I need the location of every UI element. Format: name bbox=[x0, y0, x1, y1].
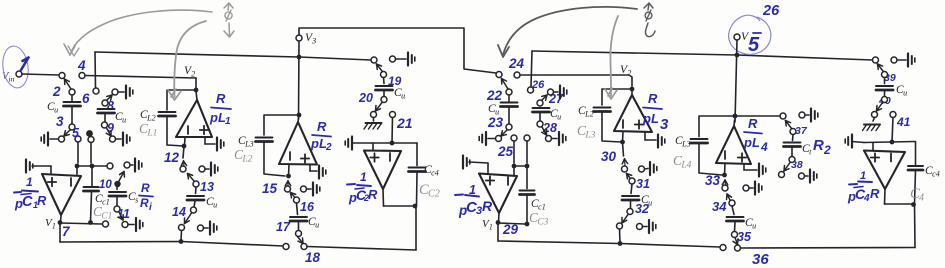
svg-text:25: 25 bbox=[497, 144, 514, 159]
op-amp U8 (-1/pC4R) bbox=[864, 151, 905, 190]
ink blob junction bbox=[86, 130, 93, 137]
wire contact 41 down bbox=[892, 118, 893, 143]
svg-text:14: 14 bbox=[172, 205, 186, 219]
svg-text:26: 26 bbox=[531, 79, 545, 91]
label CL3 handwritten bbox=[577, 123, 596, 141]
switch contact 40a (bottom of Cu10) bbox=[882, 97, 888, 103]
switch contact 18a bbox=[283, 244, 289, 250]
wire U1 inverting rail bbox=[75, 164, 110, 169]
wire V5 node to Ct branch bbox=[737, 115, 780, 117]
svg-text:16: 16 bbox=[300, 200, 315, 214]
wire bottom rail (18 to U4 output) bbox=[307, 247, 416, 251]
switch blade 9 bbox=[106, 128, 111, 136]
switch blade 35 bbox=[733, 238, 738, 245]
svg-text:c4: c4 bbox=[431, 169, 439, 178]
wire Cu7 bottom lead bbox=[539, 113, 541, 121]
label 22 bbox=[486, 88, 503, 103]
ground at U3 output side bbox=[310, 165, 326, 179]
switch blade 24 bbox=[502, 79, 509, 90]
gray arrow 1 (left, clock annotation) bbox=[64, 10, 212, 56]
wire Cu6 top lead bbox=[508, 95, 510, 102]
gray clock doodle left (up arrow, phi, down arrow) bbox=[224, 3, 234, 37]
label 9 bbox=[107, 121, 114, 135]
label -1/pC1R (blue) bbox=[14, 175, 47, 211]
svg-text:3: 3 bbox=[311, 37, 316, 46]
switch contact 14c (grounded) bbox=[198, 225, 204, 231]
switch contact 32c (grounded) bbox=[637, 224, 643, 230]
wire contact 5 down bbox=[77, 142, 79, 163]
label R/pL2 (blue) bbox=[310, 119, 332, 153]
op-amp U7 (R/pL4) bbox=[716, 126, 751, 164]
switch contact 20b (to earth) bbox=[371, 112, 377, 118]
svg-text:1: 1 bbox=[360, 170, 367, 184]
svg-text:26: 26 bbox=[762, 3, 780, 19]
label CL2 handwritten bbox=[234, 147, 253, 165]
wire Cs top lead bbox=[116, 187, 118, 190]
label 23 bbox=[487, 115, 504, 130]
svg-text:u: u bbox=[752, 222, 756, 231]
switch contact 5b bbox=[88, 137, 94, 143]
switch contact 33b (grounded) bbox=[743, 185, 749, 191]
svg-text:3: 3 bbox=[56, 114, 64, 129]
svg-text:t: t bbox=[809, 148, 812, 157]
svg-text:4: 4 bbox=[863, 193, 870, 204]
switch blade 8 bbox=[107, 95, 112, 100]
ground at U5 + input bbox=[463, 156, 488, 174]
svg-text:i: i bbox=[149, 202, 152, 213]
annotation blue circle around V5 bbox=[729, 15, 771, 54]
svg-text:18: 18 bbox=[305, 250, 321, 265]
svg-text:pL: pL bbox=[310, 136, 327, 151]
capacitor Cu10 bbox=[876, 78, 907, 98]
node V5 (terminal) bbox=[734, 31, 750, 43]
capacitor CL2 (U2 feedback) bbox=[159, 90, 197, 146]
switch contact 13 (top of Cu3) bbox=[193, 181, 199, 187]
label 26 small bbox=[531, 79, 545, 91]
label 39 bbox=[884, 72, 896, 84]
switch blade 38 bbox=[784, 163, 790, 172]
wire contact 21 down bbox=[391, 118, 394, 144]
label CL4 handwritten bbox=[673, 153, 692, 171]
node 4 contact on rail2 bbox=[79, 73, 85, 79]
switch contact 23a (bottom of Cu6) bbox=[506, 124, 512, 130]
switch contact 15b (grounded) bbox=[301, 186, 307, 192]
label -1/pC4R (blue) bbox=[847, 170, 880, 204]
gray arrow 2 (left, to V2) bbox=[168, 21, 206, 100]
switch contact 39a (rail1' end) bbox=[873, 57, 879, 63]
switch contact 28b bbox=[546, 136, 552, 142]
switch contact 40b (to earth) bbox=[872, 112, 878, 118]
svg-text:L3: L3 bbox=[584, 131, 595, 141]
switch contact 36b bbox=[735, 245, 741, 251]
label 16 bbox=[300, 200, 315, 214]
svg-text:1: 1 bbox=[26, 175, 33, 189]
switch contact 24a (from V3 wire) bbox=[496, 72, 502, 78]
switch blade 40 bbox=[877, 103, 883, 112]
op-amp U6 (R/pL3) bbox=[614, 95, 652, 132]
svg-text:pL: pL bbox=[642, 111, 659, 126]
capacitor Ct bbox=[784, 135, 813, 157]
label 35 bbox=[737, 230, 752, 244]
wire U4 inverting rail bbox=[371, 141, 417, 146]
capacitor Cc3 (U5 feedback) bbox=[520, 166, 546, 226]
annotation blue circled 1 at input bbox=[0, 44, 31, 89]
wire U1 inverting input drop bbox=[76, 166, 78, 175]
switch contact 10b (top of Cs) bbox=[114, 181, 120, 187]
earth ground at switch 20 bbox=[364, 118, 382, 130]
svg-text:5: 5 bbox=[72, 126, 80, 140]
ground at switch 10 bbox=[130, 159, 142, 172]
label R/pL4 (blue) bbox=[743, 116, 768, 154]
wire rail1' (top horizontal) bbox=[532, 51, 873, 60]
switch contact 11b bbox=[122, 222, 128, 228]
ground at switch 27 bbox=[554, 86, 567, 99]
capacitor Cu8 bbox=[622, 184, 652, 209]
switch contact 10c (grounded) bbox=[124, 162, 130, 168]
capacitor Cu3 bbox=[187, 187, 217, 210]
wire U4 + input drop bbox=[372, 143, 374, 150]
label Cc4 printed bbox=[925, 165, 940, 179]
switch contact 35a (bottom of Cu9) bbox=[732, 232, 738, 238]
svg-text:4: 4 bbox=[760, 140, 768, 154]
switch blade 17 bbox=[298, 237, 304, 244]
label 11 bbox=[117, 207, 130, 221]
svg-text:17: 17 bbox=[276, 220, 291, 234]
label 20 bbox=[358, 91, 373, 105]
switch blade 19 bbox=[377, 64, 383, 71]
switch blade 14 bbox=[185, 213, 192, 224]
dark arrow 1 (right, clock annotation) bbox=[498, 7, 637, 57]
label 14 bbox=[172, 205, 186, 219]
svg-text:1: 1 bbox=[489, 223, 493, 232]
switch contact on V1 line bbox=[103, 221, 109, 227]
switch blade 2 bbox=[65, 79, 72, 89]
label 12 bbox=[164, 150, 180, 165]
label 8 bbox=[107, 99, 114, 113]
wire rail1 (top horizontal) bbox=[95, 52, 371, 60]
node V2' bbox=[620, 64, 634, 91]
label -1/pC3R (blue) bbox=[455, 183, 493, 218]
switch contact 30a bbox=[622, 166, 628, 172]
svg-text:u: u bbox=[401, 92, 405, 101]
svg-text:pL: pL bbox=[209, 110, 226, 125]
op-amp U1 (-1/pC1R) bbox=[42, 174, 81, 215]
svg-text:23: 23 bbox=[487, 115, 504, 130]
capacitor CL4 (U7 feedback) bbox=[691, 116, 736, 175]
svg-text:24: 24 bbox=[508, 56, 525, 71]
switch contact 5 (to U1 inverting rail) bbox=[72, 126, 81, 142]
svg-text:u: u bbox=[315, 221, 319, 230]
svg-text:4: 4 bbox=[919, 193, 924, 204]
label -1/pC2R (blue) bbox=[347, 170, 378, 205]
label 27 bbox=[548, 92, 564, 106]
svg-text:2: 2 bbox=[191, 70, 195, 79]
wire U6 inverting input lead bbox=[620, 132, 625, 144]
switch contact 30b (grounded) bbox=[639, 166, 645, 172]
label 28 bbox=[542, 121, 557, 135]
wire contact 5b down bbox=[90, 143, 92, 164]
wire U8 + input drop bbox=[872, 143, 874, 151]
op-amp U3 (R/pL2) bbox=[279, 122, 317, 165]
label 24 bbox=[508, 56, 525, 71]
wire V1 output line bbox=[60, 223, 102, 224]
switch contact 8a (top of Cu2) bbox=[102, 100, 108, 106]
label 19 bbox=[388, 74, 402, 88]
label 30 bbox=[601, 149, 617, 164]
wire input to switch 2 bbox=[22, 74, 59, 75]
switch blade 34 bbox=[727, 194, 732, 200]
switch contact 9b bbox=[110, 136, 116, 142]
svg-text:pL: pL bbox=[743, 135, 760, 150]
switch contact 32a (bottom of Cu8) bbox=[627, 209, 633, 215]
capacitor Cu1 bbox=[47, 101, 81, 115]
switch blade 30 bbox=[622, 159, 627, 167]
label 4 bbox=[77, 58, 86, 73]
svg-text:R: R bbox=[216, 91, 226, 106]
switch contact 21 (to U4 input) bbox=[390, 112, 396, 118]
wire bottom rail (36 to U8 output) bbox=[741, 247, 916, 250]
capacitor Cu2 bbox=[98, 109, 127, 125]
label 26 big blue bbox=[762, 3, 780, 19]
svg-text:c1: c1 bbox=[102, 198, 110, 207]
node V3 (terminal) bbox=[296, 32, 316, 46]
wire chain30 stub bbox=[623, 142, 624, 156]
capacitor Cc4 (U8 feedback) bbox=[908, 142, 923, 204]
wire V5 vertical bbox=[733, 40, 740, 122]
svg-text:L2: L2 bbox=[241, 155, 252, 165]
label C4 handwritten bbox=[910, 186, 924, 204]
ground at U4 + input bbox=[345, 137, 371, 150]
label 2 bbox=[52, 84, 61, 99]
ground at U1 + input bbox=[26, 160, 51, 174]
wire Cu2 bottom lead bbox=[104, 114, 106, 122]
wire rail1 drop to contact 6 bbox=[94, 52, 97, 88]
wire V2 drop from rail2 bbox=[195, 78, 197, 90]
label CL2' bbox=[578, 105, 594, 119]
svg-text:41: 41 bbox=[896, 115, 911, 129]
switch contact 3a (bottom of Cu1) bbox=[69, 124, 75, 130]
svg-text:R: R bbox=[140, 196, 149, 210]
ground at switch 19 bbox=[396, 53, 415, 66]
switch contact 10a (rail end) bbox=[107, 163, 113, 169]
switch blade 16 bbox=[291, 193, 296, 198]
svg-text:C1: C1 bbox=[101, 212, 112, 222]
svg-text:1: 1 bbox=[52, 222, 56, 231]
node Vin (input terminal, node 1) bbox=[2, 71, 22, 84]
switch contact 16 (top of Cu4) bbox=[294, 197, 300, 203]
switch contact 15a bbox=[285, 186, 291, 192]
label 5 big blue bbox=[748, 33, 761, 56]
wire U7 inverting input lead bbox=[722, 163, 727, 177]
svg-text:38: 38 bbox=[791, 159, 803, 171]
switch contact 6 bbox=[93, 88, 99, 94]
label 21 bbox=[396, 115, 413, 131]
switch contact 12b (grounded) bbox=[199, 166, 205, 172]
svg-text:in: in bbox=[9, 75, 15, 84]
svg-text:R: R bbox=[870, 186, 880, 201]
switch contact 19a (rail1 end) bbox=[371, 57, 377, 63]
switch contact 14b bbox=[179, 225, 185, 231]
wire U8 output drop to bottom rail bbox=[914, 204, 917, 248]
capacitor Cu4 bbox=[290, 203, 319, 231]
svg-text:37: 37 bbox=[795, 125, 808, 137]
label 7 bbox=[62, 224, 71, 239]
label 6 bbox=[82, 91, 90, 106]
switch contact 41 (to U8 input) bbox=[890, 112, 896, 118]
label Cc2 handwritten bbox=[419, 182, 440, 200]
switch contact 19c (grounded) bbox=[390, 56, 396, 62]
svg-text:20: 20 bbox=[358, 91, 373, 105]
svg-text:L3: L3 bbox=[244, 140, 254, 149]
label R/pL3 (blue) bbox=[642, 91, 669, 133]
wire U7 output stub bbox=[733, 120, 736, 126]
label 18 bbox=[305, 250, 321, 265]
switch contact 37b (top of Ct) bbox=[790, 129, 796, 135]
label CL1 handwritten bbox=[139, 121, 157, 139]
wire contact 32b to bottom rail bbox=[618, 229, 623, 246]
switch contact 27a (top of Cu7) bbox=[537, 100, 543, 106]
wire contact 14b to bottom rail bbox=[179, 231, 184, 244]
ground at switch 39 bbox=[897, 54, 915, 67]
switch blade 23 bbox=[501, 130, 507, 136]
node V2 bbox=[184, 65, 198, 92]
wire rail2' (to V2') bbox=[520, 75, 632, 86]
node V1 (U1 output) bbox=[45, 215, 62, 231]
switch blade 28 bbox=[542, 127, 547, 135]
ground at switch 9 bbox=[116, 133, 130, 146]
svg-text:2: 2 bbox=[52, 84, 61, 99]
ground at switch 28 bbox=[552, 132, 566, 145]
svg-text:C3: C3 bbox=[537, 218, 548, 228]
svg-text:32: 32 bbox=[635, 202, 649, 216]
switch contact 38a (bottom of Ct) bbox=[789, 157, 795, 163]
switch contact 25b bbox=[524, 135, 530, 141]
ground at switch 11 bbox=[128, 218, 143, 231]
svg-text:33: 33 bbox=[705, 173, 721, 188]
label 10 bbox=[99, 179, 112, 191]
label 37 bbox=[795, 125, 808, 137]
ground at U7 output side bbox=[744, 164, 766, 177]
svg-text:u: u bbox=[213, 201, 217, 210]
node V1' (U5 output) bbox=[482, 213, 500, 232]
switch blade 13 bbox=[188, 174, 195, 182]
svg-text:15: 15 bbox=[262, 181, 278, 196]
label 36 bbox=[752, 251, 769, 268]
svg-text:R: R bbox=[648, 91, 658, 106]
capacitor Cu6 bbox=[488, 103, 518, 117]
switch blade 31 bbox=[627, 174, 632, 179]
svg-text:R: R bbox=[141, 181, 150, 195]
ground at switch 14 bbox=[204, 222, 217, 235]
label R2 (blue) bbox=[813, 137, 831, 157]
svg-text:13: 13 bbox=[200, 180, 214, 194]
switch contact 9a (bottom of Cu2) bbox=[102, 122, 108, 128]
svg-text:34: 34 bbox=[712, 199, 727, 214]
label Cc1 handwritten bbox=[93, 204, 112, 222]
switch blade 15 bbox=[285, 181, 291, 187]
wire U3 output stub bbox=[297, 118, 300, 122]
op-amp U2 (R/pL1) bbox=[176, 100, 212, 137]
label 13 bbox=[200, 180, 214, 194]
switch contact 37a (on V5 wire) bbox=[780, 113, 786, 119]
svg-text:L1: L1 bbox=[146, 129, 157, 139]
svg-text:1: 1 bbox=[860, 170, 866, 182]
capacitor Cu5 bbox=[376, 78, 406, 101]
wire chain2 stub bbox=[183, 146, 184, 158]
svg-text:35: 35 bbox=[737, 230, 752, 244]
svg-text:c4: c4 bbox=[932, 170, 940, 179]
switch blade 10 bbox=[119, 172, 124, 182]
svg-text:30: 30 bbox=[601, 149, 617, 164]
switch contact 25a bbox=[511, 135, 517, 141]
switch contact 12a bbox=[180, 166, 186, 172]
svg-text:R: R bbox=[37, 193, 47, 208]
capacitor CL3 (U3 feedback) bbox=[256, 115, 300, 176]
ground at U2 output side bbox=[205, 137, 224, 151]
label 29 bbox=[502, 222, 519, 237]
label 41 bbox=[896, 115, 911, 129]
svg-text:u: u bbox=[903, 89, 907, 98]
svg-text:L3: L3 bbox=[681, 140, 691, 149]
switch contact 32b bbox=[617, 223, 623, 229]
wire rail1' drop to contact 26 bbox=[531, 51, 532, 87]
wire rail2 (node4 to V2) bbox=[85, 76, 196, 79]
switch blade 32 bbox=[622, 215, 628, 224]
label R/pL1 (blue) bbox=[209, 91, 231, 127]
label Cc3 handwritten bbox=[529, 210, 549, 228]
label 40 bbox=[878, 95, 891, 107]
switch contact 24b (rail2' start) bbox=[514, 72, 520, 78]
wire contact 25b down bbox=[526, 141, 528, 163]
gray clock doodle right (up arrow, phi, down arrow) bbox=[644, 3, 655, 37]
svg-text:u: u bbox=[122, 116, 126, 125]
label 31 bbox=[636, 177, 650, 191]
switch contact 27b bbox=[548, 89, 554, 95]
switch contact 22 (top of Cu6) bbox=[506, 89, 512, 95]
svg-text:2: 2 bbox=[823, 143, 831, 157]
switch contact 14a (bottom of Cu3) bbox=[191, 207, 197, 213]
switch blade 11 bbox=[118, 212, 123, 220]
wire bottom rail (V1 to switch 18) bbox=[60, 223, 283, 246]
switch contact 38b bbox=[779, 172, 785, 178]
wire U4 output drop to bottom rail bbox=[415, 206, 417, 250]
switch contact 28a (bottom of Cu7) bbox=[537, 121, 543, 127]
switch contact 39c (grounded) bbox=[891, 57, 897, 63]
switch contact 39b (top of Cu10) bbox=[882, 72, 888, 78]
svg-text:L2: L2 bbox=[584, 110, 594, 119]
label Cc2 printed bbox=[424, 164, 439, 178]
switch contact 36a bbox=[720, 245, 726, 251]
wire V3 to right half bbox=[299, 28, 496, 73]
switch contact 2b (top of Cu1) bbox=[69, 89, 75, 95]
gray arrow 2 (right, to V2') bbox=[605, 16, 618, 99]
capacitor Cu7 bbox=[533, 108, 562, 122]
capacitor CL2' (U6 feedback) bbox=[594, 89, 633, 142]
switch blade 12 bbox=[181, 161, 186, 167]
wire U2 output stub bbox=[196, 91, 197, 100]
label CL3 bbox=[238, 135, 254, 149]
svg-text:c1: c1 bbox=[538, 203, 546, 212]
switch contact 38c (grounded) bbox=[799, 173, 805, 179]
wire U8 output bbox=[885, 189, 916, 207]
switch blade 3 bbox=[64, 130, 70, 136]
label 32 bbox=[635, 202, 649, 216]
svg-text:R: R bbox=[368, 187, 378, 202]
svg-text:4: 4 bbox=[77, 58, 86, 73]
switch contact 3b bbox=[59, 136, 65, 142]
capacitor Cs bbox=[109, 191, 138, 205]
svg-text:31: 31 bbox=[636, 177, 650, 191]
